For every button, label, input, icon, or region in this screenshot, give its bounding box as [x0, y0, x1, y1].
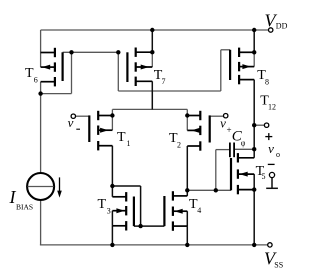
- svg-text:1: 1: [127, 139, 131, 148]
- svg-text:12: 12: [268, 103, 276, 112]
- svg-text:7: 7: [162, 77, 166, 86]
- svg-text:T: T: [117, 130, 126, 145]
- svg-text:v: v: [68, 115, 74, 130]
- svg-text:6: 6: [34, 76, 38, 85]
- svg-text:8: 8: [265, 77, 269, 86]
- svg-text:+: +: [227, 125, 232, 135]
- svg-text:DD: DD: [276, 22, 288, 31]
- svg-text:φ: φ: [241, 138, 246, 147]
- svg-text:4: 4: [197, 206, 201, 215]
- svg-text:3: 3: [107, 206, 111, 215]
- svg-text:T: T: [98, 197, 107, 212]
- svg-text:v: v: [220, 116, 226, 131]
- svg-text:5: 5: [262, 172, 266, 181]
- svg-text:o: o: [276, 150, 280, 159]
- svg-text:T: T: [25, 66, 34, 81]
- svg-text:v: v: [268, 141, 274, 156]
- svg-text:BIAS: BIAS: [16, 202, 33, 211]
- svg-text:SS: SS: [274, 261, 283, 270]
- svg-text:2: 2: [177, 140, 181, 149]
